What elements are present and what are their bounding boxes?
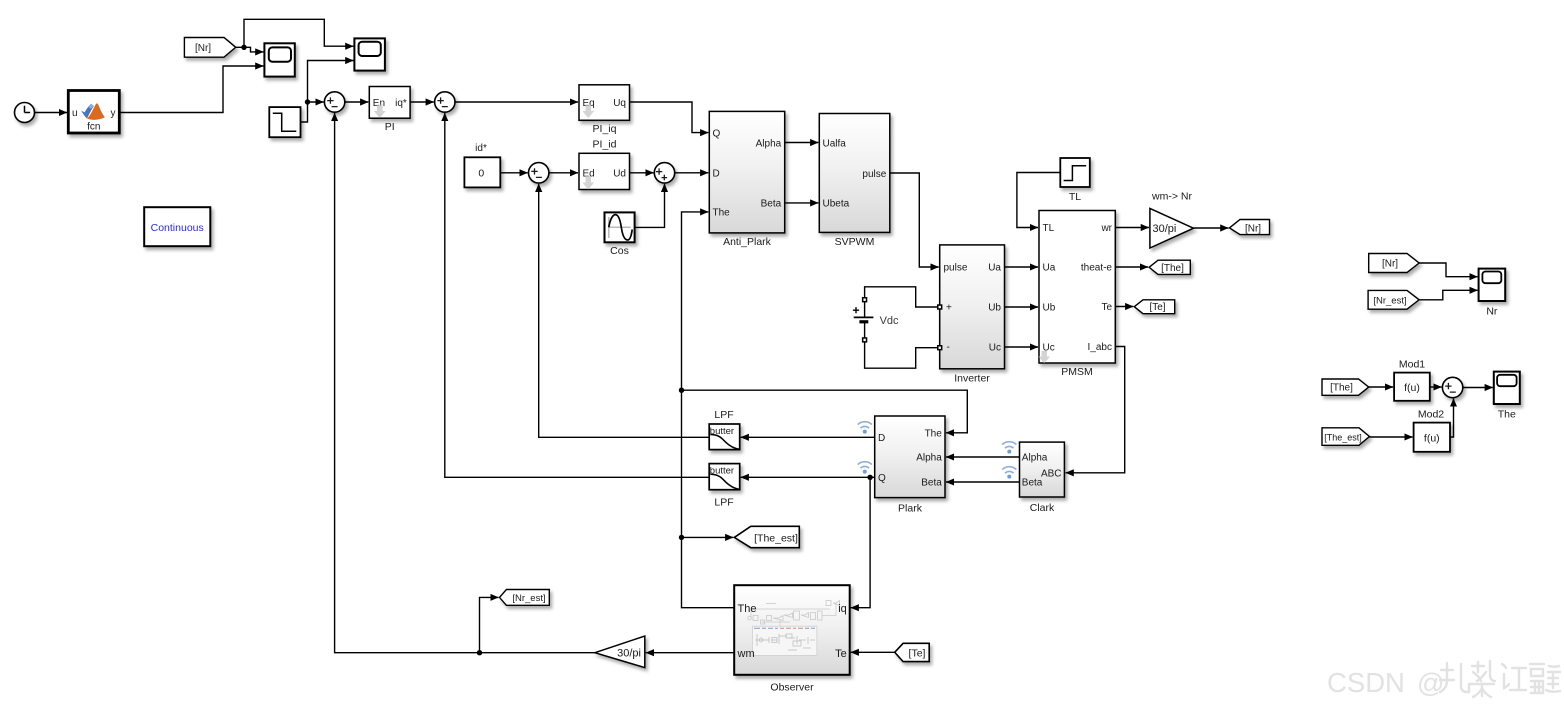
wire gain to Goto[Nr] <box>1194 227 1229 229</box>
svg-text:id*: id* <box>475 143 487 154</box>
From tag [Nr] right <box>1369 254 1419 273</box>
svg-text:D: D <box>713 169 720 180</box>
step block TL <box>1060 158 1090 187</box>
wireless badge near Plark D <box>858 422 872 434</box>
scope block Scope2 <box>354 38 385 70</box>
label id* <box>475 143 487 154</box>
wire junction The to Plark The <box>682 390 968 433</box>
wire From[The_est] to Mod2 <box>1369 436 1412 438</box>
svg-text:[The_est]: [The_est] <box>754 532 798 544</box>
svg-text:Ubeta: Ubeta <box>823 199 850 210</box>
svg-text:Alpha: Alpha <box>1022 453 1048 464</box>
svg-text:Uc: Uc <box>989 343 1001 354</box>
wire Observer The up to Anti_Plark The <box>682 212 735 608</box>
svg-text:Ua: Ua <box>1043 263 1056 274</box>
wire Clark Alpha to Plark Alpha <box>946 456 1020 458</box>
svg-text:Q: Q <box>713 128 721 139</box>
wire sum S5 to Scope The <box>1463 387 1493 389</box>
From tag [Nr] top left <box>184 38 235 58</box>
wire From[Nr_est] to Scope Nr in2 <box>1419 290 1478 300</box>
wire Inverter Ua to PMSM Ua <box>1005 266 1039 268</box>
svg-text:30/pi: 30/pi <box>1153 223 1177 235</box>
svg-text:Continuous: Continuous <box>151 222 204 234</box>
wire junction up to Scope2 in2 <box>308 61 354 103</box>
MATLAB function block fcn <box>68 91 119 134</box>
Goto tag [The_est] <box>734 526 799 547</box>
svg-text:Mod2: Mod2 <box>1418 409 1444 421</box>
svg-text:fcn: fcn <box>87 122 100 133</box>
svg-text:Observer: Observer <box>770 682 814 694</box>
svg-text:Vdc: Vdc <box>880 315 899 327</box>
label The <box>1498 409 1516 421</box>
svg-text:Ub: Ub <box>1043 303 1056 314</box>
wire Mod2 to sum S5 bottom <box>1450 399 1454 438</box>
svg-text:ABC: ABC <box>1041 469 1062 480</box>
sum S4 <box>654 163 674 183</box>
svg-text:Alpha: Alpha <box>916 453 942 464</box>
DC source Vdc <box>853 297 899 343</box>
wire TL step to PMSM TL <box>1017 173 1060 228</box>
gain 30/pi left pointing <box>595 636 645 668</box>
svg-text:[Te]: [Te] <box>909 647 926 659</box>
label Inverter <box>954 373 990 385</box>
svg-text:The: The <box>738 603 757 615</box>
wire Plark D to LPF1 <box>741 436 875 438</box>
subsystem Anti_Plark <box>709 111 784 232</box>
wire sum S3 to PI_id <box>549 172 578 174</box>
Goto tag [The] <box>1149 260 1190 274</box>
svg-text:[The_est]: [The_est] <box>1324 432 1362 442</box>
svg-text:Ud: Ud <box>613 169 626 180</box>
wire LPF1 to sum S3 bottom <box>539 184 710 437</box>
wire From[Nr] right to Scope Nr in1 <box>1419 263 1478 277</box>
Fcn block Mod1 f(u) <box>1394 373 1430 401</box>
label Plark <box>898 503 923 515</box>
svg-text:[Nr]: [Nr] <box>1245 223 1261 234</box>
constant block 0 <box>464 157 500 187</box>
wire Plark Q to LPF2 <box>741 476 875 478</box>
wire LPF2 to sum S2 bottom <box>445 113 709 477</box>
subsystem SVPWM <box>819 114 890 233</box>
wire junction The to Goto[The_est] <box>682 536 734 538</box>
wire Mod1 to sum S5 <box>1430 386 1442 388</box>
svg-text:[The]: [The] <box>1161 263 1184 274</box>
svg-text:wr: wr <box>1100 223 1112 234</box>
wire PI_id Ud to sum S4 <box>630 172 654 174</box>
svg-text:f(u): f(u) <box>1404 382 1420 394</box>
label Mod1 <box>1399 359 1425 371</box>
svg-text:PI: PI <box>385 121 395 133</box>
label PI_iq <box>593 123 617 135</box>
From tag [Nr_est] right <box>1368 290 1419 309</box>
wire junction Q down to Observer iq <box>851 477 870 607</box>
svg-text:TL: TL <box>1043 223 1055 234</box>
svg-text:Anti_Plark: Anti_Plark <box>723 236 772 248</box>
label LPF above <box>714 409 733 421</box>
wire junction up to Scope2 in1 <box>244 19 353 47</box>
wire PMSM Te to Goto[Te] <box>1115 306 1133 308</box>
svg-text:Mod1: Mod1 <box>1399 359 1425 371</box>
wire Cos to sum S4 bottom <box>635 184 665 228</box>
label Anti_Plark <box>723 236 772 248</box>
wireless badge near Plark Q <box>858 462 872 474</box>
watermark CSDN <box>1327 667 1444 698</box>
svg-text:[Nr]: [Nr] <box>195 43 211 54</box>
svg-text:Cos: Cos <box>610 245 629 257</box>
wire Anti_Plark Alpha to SVPWM Ualfa <box>785 142 819 144</box>
wire Clark Beta to Plark Beta <box>946 481 1020 483</box>
wire Vdc plus to Inverter plus <box>865 287 938 307</box>
svg-text:Uq: Uq <box>613 98 626 109</box>
svg-text:PI_id: PI_id <box>593 138 617 150</box>
svg-text:Q: Q <box>878 473 886 484</box>
filter block LPF1 butter <box>709 424 740 450</box>
label wm-> Nr <box>1151 191 1192 203</box>
wire From[Te] to Observer Te <box>851 651 895 653</box>
junction node dots <box>241 45 873 656</box>
subsystem Inverter <box>937 245 1005 369</box>
label PI <box>385 121 395 133</box>
svg-text:Nr: Nr <box>1486 306 1498 318</box>
wireless badge near Clark Alpha <box>1002 442 1016 454</box>
label SVPWM <box>835 236 875 248</box>
svg-text:0: 0 <box>478 168 484 180</box>
Goto tag [Nr] <box>1229 220 1269 235</box>
wire PI to sum S2 <box>410 101 434 103</box>
svg-text:The: The <box>925 429 943 440</box>
svg-text:pulse: pulse <box>944 263 968 274</box>
wire sum S4 to Anti_Plark D <box>675 172 709 174</box>
subsystem PI <box>369 87 410 119</box>
svg-text:Ub: Ub <box>988 303 1001 314</box>
svg-text:Clark: Clark <box>1030 502 1055 514</box>
wire Inverter Uc to PMSM Uc <box>1005 346 1039 348</box>
subsystem Observer <box>734 585 850 675</box>
wire constant 0 to sum S3 <box>500 172 527 174</box>
subsystem PI_iq <box>579 85 630 121</box>
svg-text:[The]: [The] <box>1330 383 1353 394</box>
svg-text:iq: iq <box>838 603 847 615</box>
svg-text:Beta: Beta <box>921 478 942 489</box>
watermark chinese characters <box>1440 661 1560 697</box>
label TL <box>1069 191 1081 203</box>
sum S3 <box>529 163 549 183</box>
wire gain left to sum S1 bottom <box>335 113 595 653</box>
label Mod2 <box>1418 409 1444 421</box>
powergui block Continuous <box>144 207 210 246</box>
svg-text:pulse: pulse <box>862 169 886 180</box>
label PMSM <box>1061 366 1093 378</box>
label Nr <box>1486 306 1498 318</box>
svg-text:PMSM: PMSM <box>1061 366 1093 378</box>
scope block Nr <box>1479 269 1506 301</box>
wire From[The] to Mod1 <box>1369 386 1393 388</box>
svg-text:Te: Te <box>1101 302 1112 313</box>
svg-text:Beta: Beta <box>761 199 782 210</box>
svg-text:TL: TL <box>1069 191 1081 203</box>
svg-text:Ua: Ua <box>988 263 1001 274</box>
filter block LPF2 butter <box>709 464 740 490</box>
wire step to junction <box>301 102 308 122</box>
svg-text:[Nr_est]: [Nr_est] <box>512 593 545 604</box>
svg-text:[Te]: [Te] <box>1149 302 1165 313</box>
svg-text:Alpha: Alpha <box>756 138 782 149</box>
svg-text:wm: wm <box>737 648 755 660</box>
Fcn block Mod2 f(u) <box>1414 423 1450 452</box>
wire Observer wm to gain 30/pi left <box>646 652 734 654</box>
svg-text:+: + <box>946 303 952 314</box>
svg-text:wm-> Nr: wm-> Nr <box>1151 191 1192 203</box>
svg-text:The: The <box>713 208 731 219</box>
svg-text:LPF: LPF <box>714 497 733 509</box>
wire Inverter Ub to PMSM Ub <box>1005 306 1039 308</box>
svg-text:Te: Te <box>835 648 847 660</box>
gain wm to Nr 30/pi <box>1150 208 1194 248</box>
wire junction to Goto[Nr_est] <box>480 597 499 652</box>
subsystem Plark <box>875 416 945 498</box>
svg-text:y: y <box>111 108 116 119</box>
From tag [Te] mirrored <box>895 643 930 661</box>
svg-text:I_abc: I_abc <box>1088 342 1112 353</box>
svg-text:Beta: Beta <box>1022 478 1043 489</box>
clock block <box>15 103 35 123</box>
sine source block Cos <box>605 212 635 242</box>
label Clark <box>1030 502 1055 514</box>
sum S5 <box>1442 377 1462 397</box>
wireless badge near Clark Beta <box>1002 467 1016 479</box>
label Observer <box>770 682 814 694</box>
wire SVPWM pulse to Inverter pulse <box>890 173 939 267</box>
subsystem PI_id <box>579 153 630 189</box>
wire From[Nr] to junction to Scope1 in1 <box>236 47 264 52</box>
label PI_id <box>593 138 617 150</box>
wire clock to fcn <box>35 112 67 114</box>
wire Anti_Plark Beta to SVPWM Ubeta <box>785 202 819 204</box>
wire PMSM theat-e to Goto[The] <box>1115 266 1148 268</box>
svg-text:[Nr_est]: [Nr_est] <box>1373 295 1406 306</box>
svg-text:Inverter: Inverter <box>954 373 990 385</box>
From tag [The_est] right <box>1322 428 1369 446</box>
svg-text:CSDN: CSDN <box>1327 667 1405 698</box>
subsystem Clark <box>1020 442 1065 497</box>
svg-text:LPF: LPF <box>714 409 733 421</box>
svg-text:30/pi: 30/pi <box>617 648 641 660</box>
Goto tag [Te] <box>1134 300 1174 314</box>
label LPF below <box>714 497 733 509</box>
scope block Scope1 <box>264 43 294 76</box>
wire PI_iq Uq to Anti_Plark Q <box>630 102 709 133</box>
svg-text:PI_iq: PI_iq <box>593 123 617 135</box>
From tag [The] right <box>1322 379 1369 395</box>
svg-text:-: - <box>947 342 950 353</box>
svg-text:SVPWM: SVPWM <box>835 236 875 248</box>
label Cos <box>610 245 629 257</box>
wire Vdc minus to Inverter minus <box>865 342 938 368</box>
svg-text:Ualfa: Ualfa <box>823 138 847 149</box>
wire PMSM wr to gain 30/pi <box>1115 227 1149 229</box>
sum S1 <box>324 92 344 112</box>
svg-text:The: The <box>1498 409 1516 421</box>
sum S2 <box>435 92 455 112</box>
wire junction to sum S1 <box>308 101 324 103</box>
wire PMSM I_abc to Clark ABC <box>1066 347 1125 473</box>
wire fcn y to Scope1 in2 <box>120 66 264 113</box>
svg-text:D: D <box>878 433 885 444</box>
svg-text:theat-e: theat-e <box>1081 263 1113 274</box>
wire sum S2 to PI_iq <box>455 101 578 103</box>
svg-text:[Nr]: [Nr] <box>1382 259 1398 270</box>
wire sum S1 to PI <box>345 101 369 103</box>
svg-text:f(u): f(u) <box>1424 432 1440 444</box>
svg-text:u: u <box>72 108 78 119</box>
Goto tag [Nr_est] <box>500 590 550 606</box>
svg-text:@: @ <box>1417 668 1444 698</box>
scope block The <box>1494 372 1520 404</box>
step block falling <box>269 107 300 137</box>
subsystem PMSM <box>1038 211 1115 364</box>
svg-text:Plark: Plark <box>898 503 923 515</box>
svg-text:iq*: iq* <box>395 98 407 109</box>
